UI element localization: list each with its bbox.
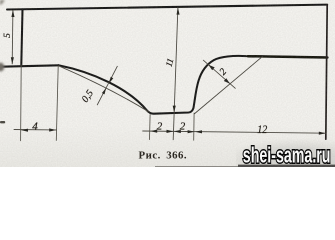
arrow dim2a left [150,130,157,133]
arrow dim05 upper (tip on curve, body above) [109,77,113,84]
wire: right construction chord [195,57,263,114]
global film grain [0,0,335,167]
arrow dim12 right [319,132,326,135]
wire: dim 5 vertical line [11,10,14,64]
arrow dim11 top [177,8,180,15]
arrow dim4 right [49,128,56,131]
wire: right vertical main edge + extension [326,5,327,140]
wire: main profile curve (descent, flat bottom, ascent, right shoulder) [59,56,328,114]
wire: extension at x=150 [149,115,152,140]
wire: left vertical main edge [21,9,22,65]
node: dimension labels [3,33,268,136]
paper background [0,0,335,167]
wire: top edge main line [7,5,327,10]
wire: dim 2-2-12 long line [143,131,326,133]
wire: right shoulder overlay (heavier) [248,56,327,57]
watermark shei-sama.ru [243,142,331,167]
wire: extension at x=194 [193,113,195,140]
wire: extension left vertical below shoulder [20,65,23,141]
wire: dim 2 (curve depth) shaft [203,60,235,88]
arrow dim2a right [167,130,174,133]
scan smudges [0,0,335,167]
arrow dim11 bottom [173,106,176,113]
watermark grey backdrop [236,137,335,167]
wire: left construction chord [59,66,148,112]
wire: dim 11 vertical line [173,8,178,140]
wire: dim 0,5 shaft [97,66,117,105]
arrow dim4 left [21,129,28,132]
arrow dim2b right [188,130,195,133]
arrow dim12 left [195,130,202,133]
wire: left shoulder horizontal [2,65,59,66]
arrow dim2c upper (tip on curve) [208,65,214,71]
arrow dim5 top [11,10,14,17]
wire: extension at x=56 [56,66,58,140]
wire: dim 4 line [14,129,56,131]
arrow dim5 bottom [11,57,14,64]
arrow dim05 lower (tip on chord, body below) [102,88,106,95]
arrow dim2c lower (tip on chord) [224,78,230,84]
arrow dim2b left [174,130,181,133]
